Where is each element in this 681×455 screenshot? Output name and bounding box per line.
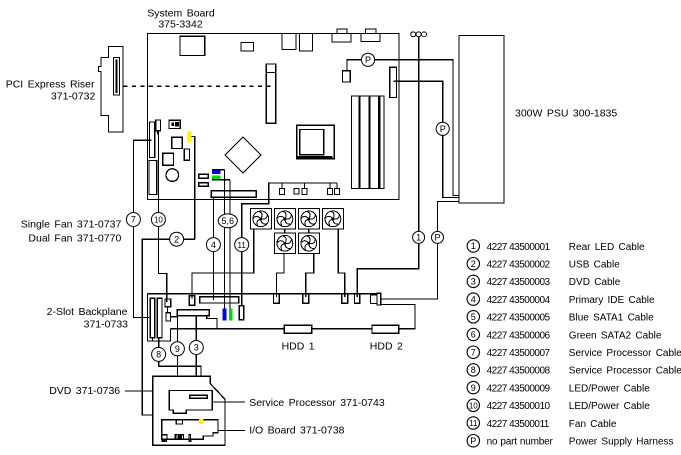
svg-text:4: 4 <box>471 294 476 304</box>
svg-text:Fan Cable: Fan Cable <box>569 419 617 430</box>
svg-text:Power Supply Harness: Power Supply Harness <box>569 437 674 448</box>
svg-text:2: 2 <box>174 234 179 244</box>
svg-text:LED/Power Cable: LED/Power Cable <box>569 401 650 412</box>
svg-text:5,6: 5,6 <box>222 216 235 226</box>
svg-text:9: 9 <box>471 383 476 393</box>
svg-text:PCI Express Riser: PCI Express Riser <box>6 79 95 91</box>
svg-text:8: 8 <box>471 365 476 375</box>
svg-text:P: P <box>365 55 371 65</box>
svg-text:1: 1 <box>416 232 421 242</box>
svg-text:11: 11 <box>469 419 478 428</box>
svg-text:Service Processor Cable: Service Processor Cable <box>569 366 681 377</box>
svg-text:3: 3 <box>194 343 199 353</box>
svg-text:4227 43500004: 4227 43500004 <box>487 295 551 306</box>
svg-text:300W PSU 300-1835: 300W PSU 300-1835 <box>515 108 617 120</box>
svg-text:2: 2 <box>471 259 476 269</box>
svg-text:Blue SATA1 Cable: Blue SATA1 Cable <box>569 313 654 324</box>
svg-text:Dual Fan 371-0770: Dual Fan 371-0770 <box>28 233 121 245</box>
svg-text:Service Processor 371-0743: Service Processor 371-0743 <box>249 397 385 409</box>
svg-text:1: 1 <box>471 241 476 251</box>
svg-text:4227 43500008: 4227 43500008 <box>487 366 551 377</box>
svg-text:Green SATA2 Cable: Green SATA2 Cable <box>569 330 662 341</box>
svg-text:4227 43500011: 4227 43500011 <box>487 419 550 430</box>
svg-text:375-3342: 375-3342 <box>158 19 203 31</box>
svg-text:4227 43500007: 4227 43500007 <box>487 348 551 359</box>
svg-text:LED/Power Cable: LED/Power Cable <box>569 383 650 394</box>
svg-text:7: 7 <box>131 215 136 225</box>
svg-text:USB Cable: USB Cable <box>569 260 620 271</box>
svg-text:4227 43500001: 4227 43500001 <box>487 242 551 253</box>
svg-text:4227 43500009: 4227 43500009 <box>487 383 551 394</box>
svg-text:2-Slot Backplane: 2-Slot Backplane <box>47 306 128 318</box>
svg-text:10: 10 <box>469 402 478 411</box>
svg-text:4: 4 <box>211 240 216 250</box>
svg-text:P: P <box>440 124 446 134</box>
svg-text:I/O Board 371-0738: I/O Board 371-0738 <box>249 425 344 437</box>
svg-text:3: 3 <box>471 277 476 287</box>
svg-text:371-0733: 371-0733 <box>84 319 129 331</box>
svg-text:371-0732: 371-0732 <box>51 91 96 103</box>
svg-text:P: P <box>470 436 476 446</box>
svg-text:Service Processor Cable: Service Processor Cable <box>569 348 681 359</box>
svg-text:Primary IDE Cable: Primary IDE Cable <box>569 295 655 306</box>
svg-text:DVD 371-0736: DVD 371-0736 <box>49 385 120 397</box>
svg-text:4227 43500010: 4227 43500010 <box>487 401 551 412</box>
svg-text:7: 7 <box>471 347 476 357</box>
svg-text:HDD 1: HDD 1 <box>282 340 315 352</box>
svg-text:P: P <box>434 232 440 242</box>
svg-text:5: 5 <box>471 312 476 322</box>
svg-text:HDD 2: HDD 2 <box>370 340 403 352</box>
svg-text:11: 11 <box>238 241 247 250</box>
svg-text:no part number: no part number <box>487 437 554 448</box>
svg-text:4227 43500002: 4227 43500002 <box>487 260 551 271</box>
svg-text:10: 10 <box>154 216 163 225</box>
svg-text:8: 8 <box>156 350 161 360</box>
svg-text:4227 43500003: 4227 43500003 <box>487 277 551 288</box>
svg-text:4227 43500005: 4227 43500005 <box>487 313 551 324</box>
svg-text:9: 9 <box>175 344 180 354</box>
svg-text:6: 6 <box>471 330 476 340</box>
svg-text:Single Fan 371-0737: Single Fan 371-0737 <box>21 219 122 231</box>
svg-text:DVD Cable: DVD Cable <box>569 277 621 288</box>
svg-text:4227 43500006: 4227 43500006 <box>487 330 551 341</box>
svg-text:Rear LED Cable: Rear LED Cable <box>569 242 645 253</box>
